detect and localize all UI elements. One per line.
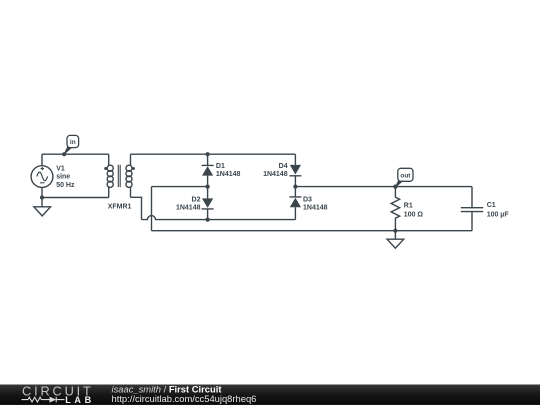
resistor R1 bbox=[391, 187, 399, 231]
node junction D2 bottom bbox=[206, 218, 210, 222]
label D4 bbox=[263, 163, 288, 178]
svg-text:50 Hz: 50 Hz bbox=[56, 182, 75, 189]
svg-text:LAB: LAB bbox=[65, 395, 95, 405]
node junction D1/D2 bbox=[206, 185, 210, 189]
svg-text:D2: D2 bbox=[192, 196, 201, 203]
diode D2 bbox=[202, 187, 214, 220]
svg-text:100 µF: 100 µF bbox=[487, 211, 510, 218]
node junction V1 bottom bbox=[40, 195, 44, 199]
label R1 100 ohm bbox=[404, 202, 424, 218]
voltage source V1 bbox=[31, 154, 53, 197]
svg-text:D1: D1 bbox=[216, 163, 225, 170]
svg-text:V1: V1 bbox=[56, 166, 65, 173]
label V1 sine 50 Hz bbox=[56, 166, 75, 189]
svg-text:sine: sine bbox=[56, 174, 70, 181]
svg-text:D4: D4 bbox=[279, 163, 288, 170]
wire top rail (XFMR1 secondary top to D4) bbox=[131, 153, 296, 155]
wire out rail (bridge to C1) bbox=[295, 186, 472, 188]
ground (below R1) bbox=[387, 231, 404, 249]
capacitor C1 bbox=[461, 187, 483, 231]
node junction top rail at D1 bbox=[206, 152, 210, 156]
wire top-left rail (V1 top to XFMR1 primary top) bbox=[42, 153, 109, 155]
node junction D4/D3 out bbox=[293, 185, 297, 189]
diode D1 bbox=[202, 154, 214, 186]
ground (below V1) bbox=[34, 198, 51, 216]
svg-text:http://circuitlab.com/cc54ujq8: http://circuitlab.com/cc54ujq8rheq6 bbox=[112, 393, 257, 404]
logo diode triangle bbox=[50, 397, 57, 403]
phase dot right bbox=[132, 167, 135, 170]
phase dot left bbox=[104, 167, 107, 170]
label C1 100uF bbox=[487, 202, 510, 218]
diode D3 bbox=[289, 187, 301, 220]
label D2 bbox=[176, 196, 201, 211]
wire bottom return rail bbox=[152, 230, 473, 232]
node label in bbox=[62, 135, 78, 156]
transformer XFMR1 bbox=[107, 154, 132, 197]
wire minus-out vertical bbox=[151, 187, 153, 231]
wire primary bottom (V1 bottom to XFMR1 primary bottom) bbox=[42, 197, 109, 199]
svg-text:1N4148: 1N4148 bbox=[176, 205, 201, 212]
wire mid-left rail (D1/D2 node) bbox=[152, 186, 208, 188]
node label out bbox=[393, 168, 413, 189]
label D3 bbox=[303, 196, 328, 211]
svg-text:1N4148: 1N4148 bbox=[216, 171, 241, 178]
svg-text:C1: C1 bbox=[487, 202, 496, 209]
svg-text:1N4148: 1N4148 bbox=[303, 205, 328, 212]
label D1 bbox=[216, 163, 241, 178]
svg-text:XFMR1: XFMR1 bbox=[108, 203, 132, 210]
svg-text:100 Ω: 100 Ω bbox=[404, 212, 424, 219]
svg-text:1N4148: 1N4148 bbox=[263, 171, 288, 178]
wire bridge bottom rail with hop bbox=[142, 216, 296, 220]
svg-text:out: out bbox=[400, 173, 411, 180]
diode D4 bbox=[289, 154, 301, 186]
node junction R1 bottom bbox=[393, 229, 397, 233]
wire secondary bottom elbow bbox=[131, 197, 142, 219]
svg-text:in: in bbox=[70, 139, 76, 146]
node junction R1 top bbox=[393, 185, 397, 189]
svg-text:R1: R1 bbox=[404, 202, 413, 209]
logo schematic line with resistor and diode bbox=[22, 397, 65, 403]
svg-text:D3: D3 bbox=[303, 196, 312, 203]
